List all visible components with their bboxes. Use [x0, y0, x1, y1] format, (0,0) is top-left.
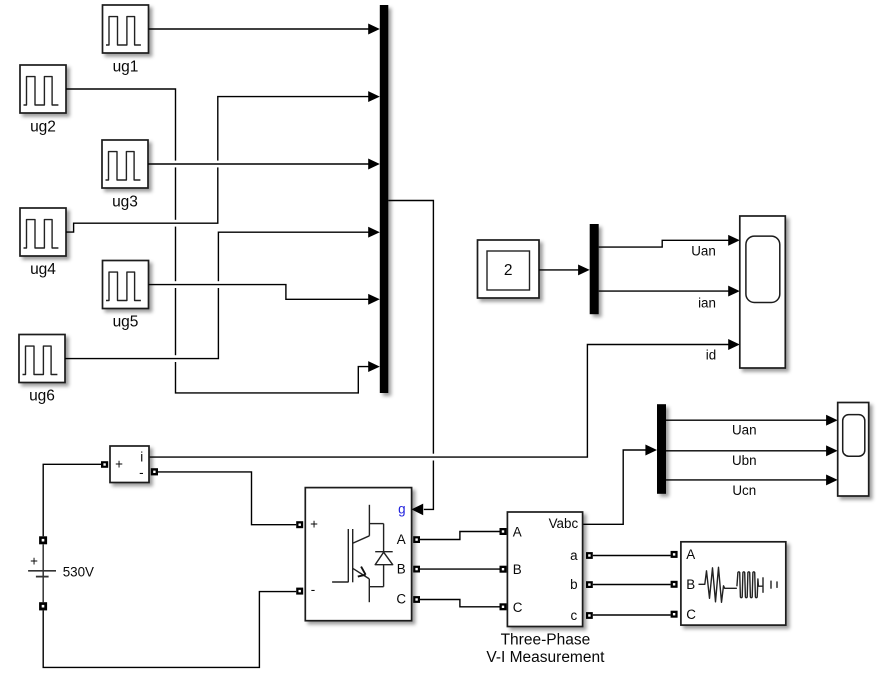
svg-text:Uan: Uan — [732, 423, 757, 438]
svg-text:a: a — [570, 548, 578, 563]
wire ug1 to mux input 1 — [149, 24, 380, 35]
pulse generator ug4 — [20, 208, 66, 256]
svg-text:B: B — [686, 577, 695, 592]
svg-text:ian: ian — [698, 296, 716, 311]
wire ug6 to mux input 4 — [65, 227, 380, 359]
IGBT collector lead — [368, 505, 370, 536]
svg-text:-: - — [139, 465, 143, 480]
pulse generator ug6 — [19, 335, 65, 383]
svg-text:Ucn: Ucn — [732, 483, 756, 498]
svg-text:ug3: ug3 — [112, 194, 138, 211]
port square current measurement + — [101, 461, 108, 468]
pulse generator ug1 — [103, 5, 149, 53]
svg-text:Vabc: Vabc — [549, 516, 579, 531]
port square load A — [671, 551, 678, 558]
port square V-I C — [500, 603, 507, 610]
svg-text:A: A — [513, 525, 522, 540]
port square load C — [671, 611, 678, 618]
waveform icon inside load block — [699, 567, 778, 602]
svg-text:C: C — [513, 600, 523, 615]
pulse generator ug5 — [103, 261, 149, 309]
wire inverter A to V-I A — [420, 532, 500, 540]
port square current measurement - — [151, 468, 158, 475]
port square V-I a — [586, 552, 593, 559]
diode bottom connection — [369, 586, 383, 588]
crossing gap on ug4 vertical — [216, 161, 219, 168]
svg-text:B: B — [513, 562, 522, 577]
pulse generator ug2 — [20, 65, 66, 113]
svg-text:i: i — [140, 450, 143, 465]
wire demux1 out2 to scope (ian) — [599, 290, 729, 292]
port square DC source + — [39, 536, 47, 544]
svg-text:C: C — [396, 591, 406, 606]
svg-text:Three-Phase: Three-Phase — [501, 631, 591, 648]
mux Mux1 (gate signals) — [380, 5, 389, 393]
constant block value 2 — [478, 240, 540, 298]
diode triangle — [375, 552, 393, 565]
wire demux2 out2 to scope2 (Ubn) — [666, 450, 827, 452]
port square DC source - — [39, 602, 47, 610]
wire ug5 to mux input 5 — [149, 285, 380, 305]
wire V-I Vabc output to demux2 — [583, 450, 646, 524]
svg-text:Uan: Uan — [691, 243, 716, 258]
scope Scope2 — [838, 403, 869, 497]
svg-text:530V: 530V — [63, 564, 94, 579]
wire ug4 to mux input 2 — [66, 91, 380, 232]
svg-text:ug1: ug1 — [113, 59, 139, 76]
port square V-I b — [586, 581, 593, 588]
demux Demux1 — [590, 224, 599, 314]
pulse generator ug3 — [102, 140, 148, 188]
svg-text:A: A — [686, 547, 695, 562]
battery lead — [42, 544, 44, 602]
crossing gap on g wire vertical — [432, 454, 435, 461]
port square V-I A — [500, 528, 507, 535]
svg-text:V-I Measurement: V-I Measurement — [486, 649, 605, 666]
wire demux2 out1 to scope2 (Uan) — [666, 419, 827, 421]
demux Demux2 — [657, 404, 666, 494]
port square V-I c — [586, 612, 593, 619]
wire V-I b to load B — [593, 584, 671, 586]
crossing gaps on ug2 vertical — [174, 161, 177, 362]
diode cathode bar — [375, 551, 393, 553]
wire ug2 to mux input 6 — [66, 89, 380, 393]
port square inverter A — [413, 536, 420, 543]
IGBT emitter arrow barb lower — [358, 575, 366, 577]
wire V-I a to load A — [593, 555, 671, 557]
three-phase load block with waveform icon — [681, 542, 786, 625]
scope Scope1 — [740, 216, 786, 368]
IGBT collector diagonal — [353, 536, 369, 543]
wire current measurement i to scope input id — [149, 345, 729, 458]
svg-text:-: - — [311, 582, 315, 597]
svg-text:A: A — [397, 532, 406, 547]
svg-text:B: B — [397, 561, 406, 576]
port square V-I B — [500, 566, 507, 573]
IGBT body bar — [352, 529, 354, 582]
crossing gap on ug6 vertical — [217, 281, 220, 288]
wire current measurement + to DC source + — [43, 464, 101, 536]
port square inverter - — [296, 588, 303, 595]
IGBT emitter lead — [368, 579, 370, 602]
inverter block (Universal Bridge) — [305, 488, 411, 621]
svg-text:g: g — [398, 502, 405, 517]
svg-text:Ubn: Ubn — [732, 453, 757, 468]
wire inverter B to V-I B — [420, 568, 500, 570]
svg-text:+: + — [30, 553, 38, 568]
three-phase V-I measurement block — [507, 512, 582, 627]
wire inverter C to V-I C — [420, 600, 500, 607]
svg-text:ug6: ug6 — [29, 388, 55, 405]
svg-text:+: + — [115, 457, 123, 472]
IGBT gate lead — [332, 581, 348, 583]
diode anode lead — [383, 565, 385, 587]
IGBT emitter arrow barb upper — [361, 567, 366, 575]
svg-text:ug5: ug5 — [113, 314, 139, 331]
svg-text:+: + — [310, 517, 318, 532]
wire DC source - to inverter - (bottom loop) — [43, 592, 296, 668]
port square inverter B — [413, 566, 420, 573]
svg-text:ug4: ug4 — [30, 261, 56, 278]
port square load B — [671, 581, 678, 588]
wire current measurement - to inverter + — [158, 472, 296, 525]
wire mux output to inverter g — [388, 201, 433, 516]
svg-text:2: 2 — [504, 262, 513, 279]
wire V-I c to load C — [593, 614, 671, 616]
current measurement block U1 — [110, 446, 149, 483]
diode cathode lead — [383, 524, 385, 552]
svg-text:id: id — [706, 347, 716, 362]
IGBT emitter diagonal — [353, 568, 370, 579]
DC voltage source 530V — [28, 536, 94, 610]
wire demux2 out3 to scope2 (Ucn) — [666, 479, 827, 481]
wire ug3 to mux input 3 — [148, 159, 380, 170]
IGBT gate bar — [347, 529, 349, 582]
svg-text:b: b — [570, 577, 577, 592]
svg-text:C: C — [686, 607, 696, 622]
port square inverter + — [296, 521, 303, 528]
port square inverter C — [413, 596, 420, 603]
wire demux1 out1 to scope (Uan) — [599, 240, 729, 247]
diode top connection — [369, 523, 383, 525]
svg-text:c: c — [571, 608, 578, 623]
battery plate positive — [28, 570, 56, 572]
battery plate negative — [36, 576, 49, 578]
svg-text:ug2: ug2 — [30, 119, 56, 136]
wire constant to demux1 — [539, 269, 579, 271]
